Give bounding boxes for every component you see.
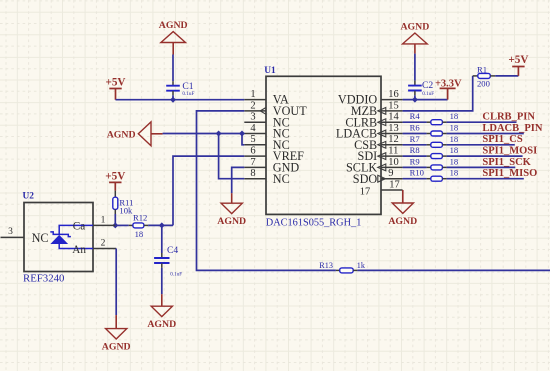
U1 pin 2 (VOUT) stub — [244, 110, 266, 112]
U1 pin 3 (NC) stub — [244, 121, 266, 123]
svg-text:5: 5 — [250, 134, 255, 145]
wire +5V to R11 — [114, 191, 116, 198]
wire U1 pin17 — [402, 190, 404, 203]
svg-text:16: 16 — [388, 89, 399, 100]
junction C2/VDDIO — [412, 97, 418, 103]
svg-text:1: 1 — [101, 215, 106, 225]
wire AGND to C2 — [414, 54, 416, 81]
resistor R8 — [431, 154, 443, 159]
svg-text:1: 1 — [250, 89, 255, 100]
wire AGND to U1 pin4 — [163, 133, 245, 135]
wire U1 pin15 MZB — [403, 76, 473, 111]
svg-text:3: 3 — [250, 112, 255, 123]
U1 pin 5 (NC) stub — [244, 144, 266, 146]
junction R11/pin1 — [112, 222, 118, 228]
svg-text:0.1uF: 0.1uF — [182, 91, 194, 97]
AGND stem — [414, 44, 416, 54]
junction C4 branch — [159, 222, 165, 228]
svg-text:10k: 10k — [119, 205, 133, 215]
wire U1 pin14 to R4 — [403, 121, 427, 123]
U1 pin 13 (LDACB) stub — [381, 133, 403, 135]
U1 pin 6 (VREF) stub — [244, 155, 266, 157]
power +5V (above R11) — [109, 182, 121, 190]
wire branch to pin8 — [219, 134, 245, 179]
junction at x219 — [216, 131, 222, 137]
svg-text:12: 12 — [388, 134, 399, 145]
U1 pin 16 (VDDIO) stub — [381, 99, 403, 101]
U1 pin 1 (VA) stub — [244, 99, 266, 101]
svg-text:+5V: +5V — [105, 77, 125, 89]
svg-text:13: 13 — [388, 123, 399, 134]
wire U1 pin12 to R7 — [403, 144, 427, 146]
wire U1 pin16 VDDIO to +3.3V — [403, 99, 448, 101]
svg-text:AGND: AGND — [147, 319, 176, 330]
capacitor C2 — [408, 86, 422, 91]
U1 pin 8 (NC) stub — [244, 178, 266, 180]
U1 pin 12 (CSB) stub — [381, 144, 403, 146]
svg-text:18: 18 — [450, 168, 459, 178]
svg-text:SDO: SDO — [353, 172, 378, 186]
ground AGND (below C4) — [161, 294, 163, 306]
wire AGND to C1 — [172, 55, 174, 82]
svg-text:AGND: AGND — [107, 129, 136, 140]
wire C2 to VDDIO net — [414, 91, 416, 95]
U2 pin 3 stub — [1, 236, 25, 238]
svg-text:SPI1_MOSI: SPI1_MOSI — [482, 146, 537, 157]
U2 pin 2 stub — [93, 248, 116, 250]
svg-text:1k: 1k — [357, 261, 366, 270]
U2 cathode rail to pin Ca — [59, 225, 93, 234]
svg-text:U2: U2 — [23, 192, 35, 202]
svg-text:R4: R4 — [410, 111, 421, 121]
U1 pin 15 (MZB) stub — [381, 110, 403, 112]
svg-text:REF3240: REF3240 — [23, 272, 64, 284]
resistor R6 — [431, 131, 443, 136]
svg-text:18: 18 — [450, 123, 459, 133]
svg-text:C2: C2 — [422, 80, 433, 91]
svg-text:18: 18 — [450, 156, 459, 166]
svg-text:R7: R7 — [410, 134, 421, 144]
U2 chip box REF3240 — [24, 203, 93, 272]
svg-text:11: 11 — [388, 146, 398, 157]
resistor R13 — [340, 268, 354, 273]
power +3.3V — [440, 88, 456, 99]
wire C4 to AGND — [161, 263, 163, 268]
ground AGND (below U1 pin7) — [231, 193, 233, 203]
wire R8 to net label — [442, 155, 446, 157]
U1 pin 4 (NC) stub — [244, 133, 266, 135]
wire R12 to C4 node — [144, 224, 148, 226]
svg-text:R8: R8 — [410, 145, 420, 155]
svg-text:CLRB_PIN: CLRB_PIN — [482, 112, 535, 123]
wire C4 branch down — [161, 225, 163, 253]
svg-text:AGND: AGND — [388, 216, 417, 227]
svg-text:LDACB_PIN: LDACB_PIN — [482, 123, 543, 134]
svg-text:17: 17 — [389, 179, 400, 190]
power +5V (top left) — [109, 89, 121, 100]
svg-text:NC: NC — [32, 231, 49, 245]
svg-text:AGND: AGND — [102, 341, 131, 352]
wire U1 pin10 to R9 — [403, 166, 427, 168]
resistor R12 — [133, 223, 144, 228]
svg-text:3: 3 — [8, 227, 13, 237]
svg-text:AGND: AGND — [159, 20, 188, 31]
op-amp U1 box DAC161S055 — [266, 76, 381, 214]
ground AGND (bottom left) — [115, 315, 117, 329]
U1 pin 9 (SDO) stub — [381, 178, 403, 180]
zener diode inside U2 — [50, 235, 68, 244]
svg-text:8: 8 — [250, 168, 255, 179]
svg-text:C4: C4 — [167, 245, 178, 256]
svg-text:0.1uF: 0.1uF — [170, 271, 182, 277]
U1 pin 2 output arrow — [260, 108, 266, 115]
svg-text:2: 2 — [101, 239, 106, 249]
svg-text:10: 10 — [388, 157, 399, 168]
wire branch to pin5 — [242, 134, 244, 145]
resistor R7 — [431, 142, 443, 147]
resistor R11 — [113, 197, 118, 209]
wire C1 to pin1 net — [172, 91, 174, 95]
svg-text:R9: R9 — [410, 156, 420, 166]
svg-text:R12: R12 — [133, 213, 147, 223]
wire R1 to +5V — [490, 75, 495, 77]
svg-text:+3.3V: +3.3V — [435, 78, 462, 89]
wire R13 to right edge — [353, 269, 357, 271]
svg-text:9: 9 — [388, 168, 393, 179]
ground AGND (top left over C1) — [161, 32, 186, 43]
AGND arrow stem — [151, 133, 163, 135]
wire U2 pin2 down to AGND — [115, 249, 117, 316]
svg-text:R1: R1 — [477, 64, 487, 74]
wire U1 pin2 VOUT down — [197, 111, 336, 271]
wire pin1 node to R12 — [115, 224, 128, 226]
resistor R4 — [431, 120, 443, 125]
svg-text:+5V: +5V — [105, 171, 125, 183]
svg-text:U1: U1 — [264, 66, 276, 76]
wire U1 pin7 GND down — [232, 167, 245, 193]
U2 pin 1 stub — [93, 224, 115, 226]
wire +5V to U1 pin1 VA — [116, 99, 245, 101]
svg-text:SPI1_SCK: SPI1_SCK — [482, 157, 531, 168]
svg-text:18: 18 — [450, 111, 459, 121]
wire U1 pin11 to R8 — [403, 155, 427, 157]
svg-text:An: An — [72, 244, 86, 256]
AGND stem — [172, 43, 174, 55]
svg-text:18: 18 — [450, 134, 459, 144]
wire R4 to net label — [442, 121, 446, 123]
wire R7 to net label — [442, 144, 446, 146]
U1 pin 10 (SCLK) stub — [381, 166, 403, 168]
power +5V (top right) — [512, 67, 524, 76]
wire R10 to net label — [442, 178, 446, 180]
svg-text:+5V: +5V — [508, 54, 528, 66]
svg-text:SPI1_MISO: SPI1_MISO — [482, 168, 537, 179]
capacitor C4 — [154, 258, 169, 263]
U1 pin 14 (CLRB) stub — [381, 121, 403, 123]
ground AGND (top right over C2) — [403, 33, 428, 44]
wire R6 to net label — [442, 133, 446, 135]
svg-text:Ca: Ca — [73, 221, 85, 233]
U1 pin 17 stub — [381, 189, 403, 191]
svg-text:DAC161S055_RGH_1: DAC161S055_RGH_1 — [266, 218, 362, 229]
svg-text:7: 7 — [250, 157, 255, 168]
svg-text:AGND: AGND — [217, 216, 246, 227]
junction C1/pin1 — [170, 97, 176, 103]
svg-text:14: 14 — [388, 112, 399, 123]
resistor R1 — [478, 73, 491, 78]
svg-text:R6: R6 — [410, 123, 421, 133]
wire R11 to U2 pin1 node — [114, 209, 116, 214]
ground AGND (pin 17) — [392, 203, 413, 213]
U1 pin 11 (SDI) stub — [381, 155, 403, 157]
wire U1 pin9 to R10 — [403, 178, 427, 180]
wire U1 pin13 to R6 — [403, 133, 427, 135]
U2 anode rail to pin An — [59, 244, 93, 249]
resistor R10 — [431, 176, 443, 181]
capacitor C1 — [166, 86, 180, 91]
wire R9 to net label — [442, 166, 446, 168]
svg-text:18: 18 — [135, 229, 144, 239]
wire U1 pin6 VREF to R12 node — [173, 156, 244, 225]
svg-text:R13: R13 — [319, 261, 333, 270]
svg-text:18: 18 — [450, 145, 459, 155]
svg-text:4: 4 — [250, 123, 256, 134]
U1 pin 7 (GND) stub — [244, 166, 266, 168]
svg-text:17: 17 — [360, 187, 371, 198]
svg-text:15: 15 — [388, 100, 399, 111]
svg-text:0.1uF: 0.1uF — [422, 91, 434, 97]
svg-text:200: 200 — [477, 78, 490, 88]
svg-text:AGND: AGND — [400, 21, 429, 32]
svg-text:NC: NC — [273, 172, 290, 186]
resistor R9 — [431, 165, 443, 170]
svg-text:2: 2 — [250, 100, 255, 111]
svg-text:R10: R10 — [410, 168, 424, 178]
svg-text:SPI1_CS: SPI1_CS — [482, 134, 522, 145]
svg-text:6: 6 — [250, 146, 255, 157]
junction at x242 — [239, 131, 245, 137]
